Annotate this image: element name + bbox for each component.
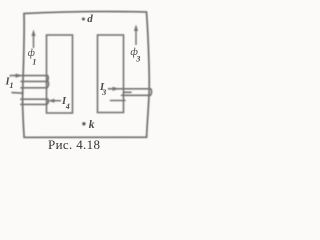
current arrow I4 (48, 99, 61, 103)
svg-text:4: 4 (65, 102, 70, 111)
node d dot (82, 18, 85, 21)
lead out of W3 (111, 100, 126, 102)
winding W3 turns on right limb (109, 89, 152, 101)
winding W4 turns on left limb (21, 99, 49, 104)
current arrow I3 (113, 87, 120, 91)
flux arrow phi1 (31, 30, 35, 49)
flux arrow phi3 (134, 25, 138, 46)
svg-text:1: 1 (32, 58, 36, 67)
svg-text:1: 1 (10, 81, 14, 90)
core outer outline (23, 12, 150, 138)
svg-text:k: k (89, 119, 95, 131)
labels (5, 13, 141, 131)
winding W1 turns on left limb (10, 76, 48, 105)
lead out of W1 (12, 92, 23, 95)
svg-text:Рис. 4.18: Рис. 4.18 (48, 137, 100, 152)
right window (98, 35, 124, 113)
node k dot (82, 122, 85, 125)
left window (47, 35, 73, 113)
svg-text:3: 3 (101, 88, 106, 97)
current arrow I1 (16, 74, 23, 78)
svg-text:d: d (87, 13, 93, 25)
svg-text:3: 3 (135, 55, 140, 64)
